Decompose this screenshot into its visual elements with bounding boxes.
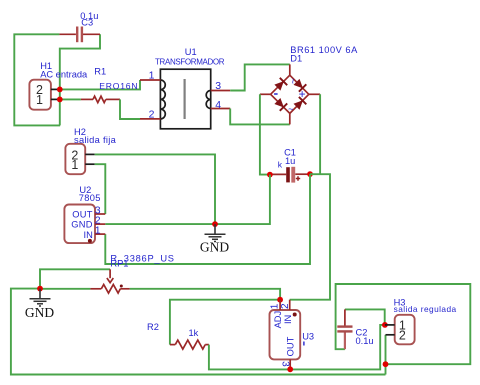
wire RP1 wiper to GND1 <box>40 269 110 288</box>
pin lead U3-1 ADJ <box>279 300 281 310</box>
svg-text:OUT: OUT <box>72 210 93 220</box>
capacitor C1 <box>270 173 286 175</box>
wire H3 pin2 down <box>385 335 387 364</box>
wire RP1 right to U3 ADJ <box>130 289 280 300</box>
svg-text:IN: IN <box>283 315 293 324</box>
wire GND1 to bottom rail <box>11 289 386 375</box>
diode top-right (points to right/+) <box>294 79 304 89</box>
pin lead H3-2 <box>386 334 395 336</box>
wire U1 pin3 to bridge top <box>230 64 290 90</box>
pin lead U2-2 <box>95 223 105 225</box>
junction H3 pin2 rail <box>383 361 389 367</box>
svg-text:ERO16N: ERO16N <box>99 81 138 91</box>
wire C1+ to U3 IN <box>290 174 330 300</box>
wire H3 pin2 junction to bottom rail <box>385 364 387 374</box>
svg-text:2: 2 <box>149 109 155 121</box>
diode left-top (points to top) <box>274 81 284 91</box>
svg-text:2: 2 <box>399 329 406 343</box>
svg-text:GND: GND <box>25 305 54 320</box>
svg-text:IN: IN <box>83 230 92 240</box>
capacitor C2 <box>344 309 346 326</box>
connector H1 <box>29 80 51 110</box>
regulator U2 7805 <box>64 205 95 244</box>
wire H2 pin1 to U2 OUT <box>95 164 106 214</box>
resistor R2 <box>170 344 175 346</box>
wire H1 pin1 to R1 <box>60 98 81 100</box>
svg-text:salida fija: salida fija <box>74 135 117 145</box>
mark dot U2 <box>88 239 92 243</box>
diode bottom-right (points to right/+) <box>294 100 304 110</box>
bridge rectifier D1 <box>260 64 320 124</box>
svg-text:1: 1 <box>36 93 43 107</box>
svg-text:0.1u: 0.1u <box>356 336 374 346</box>
svg-text:3: 3 <box>215 80 221 92</box>
mark dot U3 <box>293 313 297 317</box>
svg-text:1: 1 <box>71 158 78 172</box>
label U3 tick <box>303 342 305 346</box>
mark + C1 <box>296 176 300 180</box>
svg-text:TRANSFORMADOR: TRANSFORMADOR <box>155 58 225 67</box>
potentiometer RP1 <box>90 269 129 293</box>
capacitor C3 plates <box>76 27 78 43</box>
resistor R1 <box>81 98 93 100</box>
svg-text:R2: R2 <box>147 322 159 332</box>
wire GND rail C1- to U2 GND <box>105 175 270 225</box>
svg-text:C3: C3 <box>81 17 93 27</box>
pin lead H1-1 <box>51 98 60 100</box>
svg-text:GND: GND <box>200 239 229 254</box>
svg-text:ADJ: ADJ <box>273 311 283 329</box>
svg-text:1k: 1k <box>189 328 199 338</box>
wire C3 right to H1 pins vertical <box>60 34 100 125</box>
junction C1 right <box>307 171 313 177</box>
wire C3 left loop <box>14 34 60 125</box>
transformer U1 <box>160 69 210 129</box>
wire H1 pin2 to transformer pin1 <box>60 80 140 89</box>
connector H2 <box>65 144 85 174</box>
wire R2 to OUT rail and H3 pin1 <box>209 325 385 370</box>
wire right loop to C2 bottom <box>336 284 471 364</box>
svg-text:7805: 7805 <box>79 193 101 203</box>
ground GND1 <box>25 286 54 320</box>
wire GND1 to RP1 left <box>40 288 90 290</box>
svg-text:4: 4 <box>215 99 221 111</box>
pin lead U1-4 <box>211 108 231 110</box>
connector H3 <box>395 315 415 345</box>
wire C2 top to H3 pin1 <box>345 309 385 325</box>
svg-text:2: 2 <box>280 303 291 309</box>
pin lead U1-1 <box>140 79 160 81</box>
wire H2 pin2 to GND <box>95 154 215 224</box>
pin lead H2-2 <box>85 153 95 155</box>
diode left-bottom (points to bottom) <box>274 98 284 108</box>
junction U3 OUT <box>287 366 293 372</box>
wire bridge plus down to C1 <box>319 94 321 174</box>
junction C1 left <box>267 172 273 178</box>
pin lead U1-3 <box>211 90 231 92</box>
svg-text:k: k <box>278 159 283 169</box>
wire U1 pin4 to bridge bottom <box>230 109 290 125</box>
junction ADJ <box>277 297 283 303</box>
pin lead U1-2 <box>140 118 160 120</box>
mark - left <box>274 93 278 95</box>
pin lead U2-3 <box>95 213 105 215</box>
svg-text:D1: D1 <box>290 53 302 63</box>
regulator U3 <box>270 310 301 359</box>
svg-text:GND: GND <box>71 220 93 230</box>
wire ADJ to R2 <box>170 300 280 345</box>
svg-text:RP1: RP1 <box>110 258 128 268</box>
ground GND2 <box>200 221 229 254</box>
junction H3 pin1 <box>382 322 388 328</box>
svg-text:3: 3 <box>279 361 290 367</box>
junction H1 pin1 <box>57 97 63 103</box>
pin lead H3-1 <box>385 324 395 326</box>
pin lead U2-1 <box>95 233 105 235</box>
pin lead U3-3 OUT <box>289 359 291 369</box>
capacitor C3 leads <box>59 33 76 35</box>
svg-text:salida regulada: salida regulada <box>394 304 457 314</box>
svg-text:R1: R1 <box>94 67 106 77</box>
svg-text:+: + <box>299 87 306 101</box>
pin lead H2-1 <box>85 163 95 165</box>
svg-text:OUT: OUT <box>285 336 295 356</box>
wire C1+ down to U2 IN <box>105 174 310 264</box>
svg-text:U3: U3 <box>302 332 314 342</box>
pin lead U3-2 IN <box>289 300 291 310</box>
svg-text:~: ~ <box>286 78 297 84</box>
svg-text:1u: 1u <box>285 156 295 166</box>
svg-text:U1: U1 <box>185 47 197 57</box>
wire R1 to transformer pin2 <box>120 99 140 119</box>
wire bridge minus down to C1 <box>260 94 270 174</box>
svg-text:~: ~ <box>288 104 293 114</box>
svg-text:1: 1 <box>95 225 101 237</box>
svg-text:1: 1 <box>149 70 155 82</box>
svg-text:AC entrada: AC entrada <box>40 70 88 80</box>
junction H1 pin2 <box>57 87 63 93</box>
pin lead H1-2 <box>51 88 60 90</box>
